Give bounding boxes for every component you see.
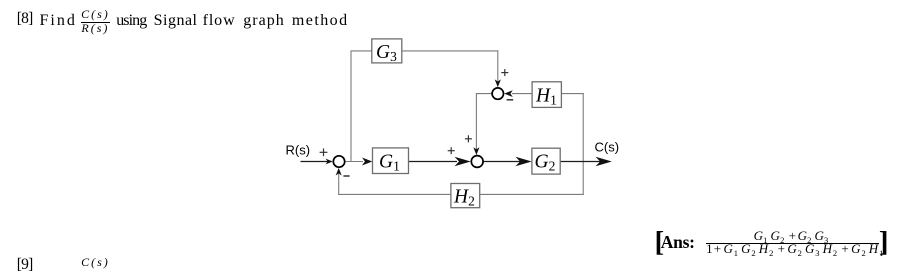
answer: fraction bar: [706, 243, 879, 244]
svg-text:R(s): R(s): [286, 143, 311, 158]
wire H1 input from takeoff node: [561, 93, 583, 95]
arrowhead into G1: [362, 158, 372, 166]
wire S3 output down to summing junction S2: [475, 93, 477, 149]
summing junction S3: [492, 88, 503, 99]
answer: big ]: [879, 228, 889, 257]
answer: big [: [655, 228, 665, 257]
large arrowhead into G2 left: [516, 157, 532, 167]
block H1: [532, 82, 561, 108]
arrowhead into S1 bottom: [336, 168, 342, 176]
arrowhead into S3 right: [504, 90, 513, 97]
answer: Ans:: [661, 234, 695, 252]
line S2 output to G2: [484, 161, 520, 163]
wire H2 input horizontal: [480, 193, 584, 195]
wire S3 output left: [476, 93, 492, 95]
sign - at S1 bottom: [343, 175, 349, 177]
wire from summing junction S1 to block G1: [345, 161, 363, 163]
title fraction C(s)/R(s): [81, 8, 110, 20]
wire takeoff vertical: [582, 93, 584, 195]
block H2: [451, 184, 480, 209]
line G2 output to C(s): [560, 161, 600, 163]
answer: fraction numerator: [706, 229, 879, 242]
wire H2 output up into S1: [338, 170, 340, 195]
answer: fraction denominator: [705, 242, 887, 255]
sign + at S2 top: [465, 135, 472, 142]
summing junction S2: [471, 156, 483, 168]
arrowhead into S3 top: [495, 79, 501, 87]
sign - at S3 right: [507, 99, 514, 101]
summing junction S1: [333, 156, 344, 167]
arrowhead into S2 top: [473, 147, 479, 155]
wire G3 output down into summing junction S3: [497, 50, 499, 82]
block G1: [373, 148, 409, 174]
sign + at S3 top: [501, 69, 508, 76]
wire H1 output to S3: [512, 93, 532, 95]
title words: [17, 11, 33, 27]
input line from R(s): [301, 161, 329, 163]
wire H2 output horizontal: [338, 193, 451, 195]
wire G3 output horizontal: [402, 50, 499, 52]
partial next line: [9] bracket tops: [17, 257, 33, 273]
arrowhead into S1 left: [326, 159, 333, 165]
large arrowhead into S2 left: [455, 157, 471, 167]
sign + at S1 input: [320, 148, 328, 156]
svg-text:C(s): C(s): [595, 140, 620, 155]
block G3: [372, 39, 402, 64]
wire into G3 left: [351, 50, 372, 52]
sign + at S2 left: [448, 147, 455, 154]
line G1 output to S2: [409, 161, 458, 163]
wire branch takeoff up to G3: [350, 51, 352, 162]
block G2: [532, 148, 560, 174]
large arrowhead at C(s) output: [596, 157, 612, 167]
partial next line: C(s) numerator top: [81, 256, 110, 268]
